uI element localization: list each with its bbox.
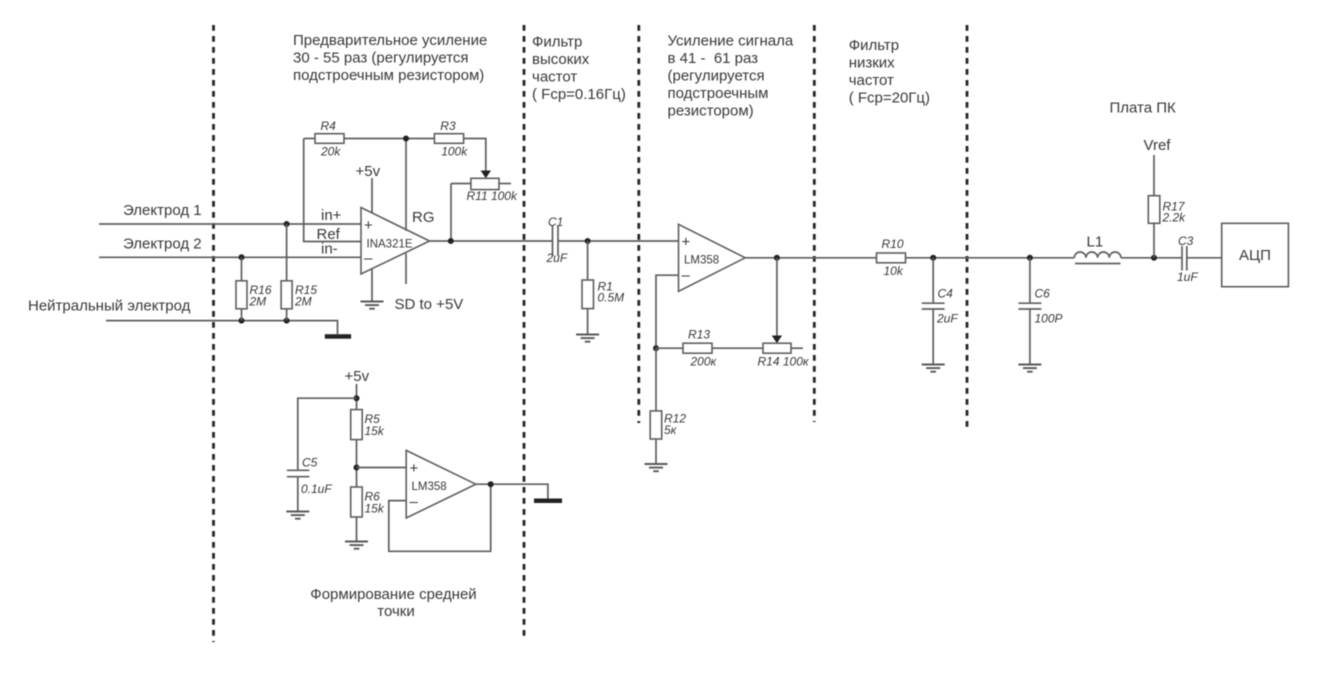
ground R1 [576, 335, 599, 342]
wire +5v pin U1 [371, 178, 373, 213]
svg-text:1uF: 1uF [1177, 270, 1198, 284]
label: preamp section [293, 32, 487, 84]
svg-text:частот: частот [849, 72, 894, 89]
resistor R12 [650, 348, 686, 463]
svg-text:20k: 20k [320, 145, 341, 159]
resistor R6 [351, 487, 385, 541]
wire to C5 [298, 398, 357, 470]
svg-text:+5v: +5v [345, 368, 370, 385]
svg-text:низких: низких [849, 55, 895, 72]
inductor L1 [1074, 234, 1121, 264]
separator dashed line 3 [637, 25, 640, 423]
resistor R17 [1148, 155, 1186, 258]
node RG/feedback [403, 136, 409, 142]
svg-text:0.5M: 0.5M [598, 291, 625, 305]
svg-text:( Fср=0.16Гц): ( Fср=0.16Гц) [532, 86, 626, 103]
capacitor C5 [287, 456, 332, 511]
svg-text:LM358: LM358 [412, 481, 447, 493]
svg-text:30 - 55 раз (регулируется: 30 - 55 раз (регулируется [293, 50, 469, 67]
node neutral/R16 [239, 318, 245, 324]
svg-text:2uF: 2uF [936, 312, 958, 326]
node neutral/R15 [284, 318, 290, 324]
svg-text:in+: in+ [321, 207, 342, 224]
svg-text:Электрод 1: Электрод 1 [123, 202, 202, 219]
op-amp U2 LM358 [679, 224, 746, 291]
label: high pass filter section [532, 34, 626, 104]
node +5v/C5 [354, 395, 360, 401]
ADC box АЦП [1222, 223, 1289, 286]
svg-text:–: – [682, 267, 691, 284]
svg-text:Фильтр: Фильтр [849, 37, 899, 54]
svg-text:RG: RG [412, 209, 435, 226]
node R5/R6 midpoint [354, 465, 360, 471]
svg-text:INA321E: INA321E [367, 239, 413, 251]
svg-text:100k: 100k [441, 145, 468, 159]
svg-text:R3: R3 [440, 119, 456, 133]
svg-text:15k: 15k [365, 502, 385, 516]
wire R4 to R3 [344, 138, 434, 140]
svg-text:5к: 5к [664, 423, 678, 437]
svg-text:C4: C4 [938, 287, 954, 301]
svg-text:–: – [364, 250, 373, 267]
ground C4 [922, 365, 945, 372]
wire L1 to C3 [1121, 257, 1182, 259]
wire U1 output [430, 240, 553, 242]
separator dashed line 2 [523, 25, 526, 641]
svg-text:C5: C5 [302, 456, 318, 470]
node C6 [1027, 255, 1033, 261]
svg-text:Предварительное усиление: Предварительное усиление [293, 32, 487, 49]
ground R12 [645, 464, 668, 471]
svg-text:АЦП: АЦП [1239, 247, 1271, 264]
op-amp U1 INA321E [361, 208, 430, 275]
svg-text:(регулируется: (регулируется [668, 68, 765, 85]
ground neutral (thick bar) [325, 334, 351, 339]
arrow R11 wiper [481, 171, 491, 179]
separator dashed line 1 [212, 25, 215, 642]
wire U3 output [476, 484, 548, 498]
svg-text:15k: 15k [365, 424, 385, 438]
ground U1 [361, 302, 384, 309]
svg-text:подстроечным: подстроечным [668, 85, 769, 102]
op-amp U3 LM358 [406, 450, 476, 518]
svg-text:2uF: 2uF [546, 251, 568, 265]
wire C3 to ADC [1187, 257, 1222, 259]
ground R6 [345, 542, 368, 549]
svg-text:C1: C1 [548, 215, 563, 229]
wire electrode 2 [99, 256, 361, 258]
svg-text:200к: 200к [690, 355, 718, 369]
arrow R14 wiper [772, 336, 782, 344]
node U1 output [448, 238, 454, 244]
wire C1 to U2 [558, 240, 679, 242]
wire Ref feedback [304, 139, 361, 242]
svg-text:Усиление сигнала: Усиление сигнала [668, 33, 794, 50]
svg-text:R14 100к: R14 100к [758, 355, 810, 369]
svg-text:( Fср=20Гц): ( Fср=20Гц) [849, 90, 930, 107]
wire midpoint to U3 [357, 467, 407, 469]
resistor R1 [582, 241, 624, 334]
separator dashed line 4 [813, 25, 816, 422]
svg-text:Электрод 2: Электрод 2 [123, 236, 202, 253]
node R17/C3 [1151, 255, 1157, 261]
resistor R13 [656, 328, 763, 369]
svg-text:R10: R10 [882, 237, 904, 251]
svg-text:2M: 2M [249, 295, 267, 309]
svg-text:точки: точки [377, 603, 414, 620]
svg-text:+5v: +5v [356, 163, 381, 180]
resistor R4 [304, 119, 344, 159]
resistor R3 [434, 119, 468, 159]
svg-text:LM358: LM358 [684, 255, 719, 267]
wire electrode 1 [99, 223, 361, 225]
label: midpoint section [310, 586, 476, 620]
wire +5v to R5 [356, 384, 358, 410]
capacitor C4 [922, 258, 959, 364]
node C1/R1 [585, 238, 591, 244]
wire R10 to L1 [906, 257, 1075, 259]
resistor R10 [877, 237, 906, 278]
svg-text:10k: 10k [884, 264, 904, 278]
label: gain section [668, 33, 794, 120]
wire U2 inverting input [656, 275, 679, 348]
svg-text:подстроечным резистором): подстроечным резистором) [293, 67, 484, 84]
node electrode1/R15 [284, 221, 290, 227]
label: low pass filter section [849, 37, 930, 107]
wire R11 to U1 output [450, 184, 452, 242]
svg-text:Плата ПК: Плата ПК [1110, 100, 1177, 117]
node U2 output [774, 255, 780, 261]
svg-text:+: + [682, 234, 691, 251]
svg-text:in-: in- [321, 241, 338, 258]
node U3 output [488, 481, 494, 487]
resistor R15 [281, 224, 317, 321]
wire U1 ground pin [371, 269, 373, 301]
capacitor C1 [546, 215, 568, 265]
svg-text:R4: R4 [321, 119, 337, 133]
svg-text:–: – [410, 494, 419, 511]
svg-text:R13: R13 [688, 328, 710, 342]
wire U3 feedback loop [389, 484, 491, 551]
svg-text:Vref: Vref [1144, 137, 1172, 154]
svg-text:в 41 - 61 раз: в 41 - 61 раз [668, 50, 759, 67]
svg-text:C6: C6 [1035, 287, 1051, 301]
svg-text:резистором): резистором) [668, 103, 754, 120]
svg-text:Фильтр: Фильтр [532, 34, 582, 51]
capacitor C3 [1177, 234, 1198, 284]
wire RG pin [405, 139, 407, 231]
node C4 [930, 255, 936, 261]
svg-text:2.2k: 2.2k [1162, 211, 1187, 225]
svg-text:SD to +5V: SD to +5V [395, 296, 464, 313]
ground C6 [1018, 365, 1041, 372]
svg-text:частот: частот [532, 69, 577, 86]
separator dashed line 5 [966, 25, 969, 427]
svg-text:+: + [364, 217, 373, 234]
svg-text:100P: 100P [1035, 312, 1063, 326]
wire U2 output to R14 wiper [776, 258, 778, 336]
svg-text:R11 100k: R11 100k [467, 189, 518, 203]
svg-text:2M: 2M [294, 295, 312, 309]
wire R3 to R11 wiper [464, 139, 486, 172]
resistor R5 [351, 410, 385, 487]
ground C5 [286, 512, 309, 519]
potentiometer R14 [758, 343, 810, 368]
capacitor C6 [1018, 258, 1062, 364]
node R13/R12 [653, 345, 659, 351]
svg-text:0.1uF: 0.1uF [301, 482, 332, 496]
resistor R16 [236, 257, 272, 320]
node electrode2/R16 [239, 254, 245, 260]
wire U2 output [745, 257, 876, 259]
potentiometer R11 [451, 178, 518, 203]
svg-text:Формирование средней: Формирование средней [310, 586, 476, 603]
svg-text:C3: C3 [1178, 234, 1194, 248]
svg-text:Нейтральный электрод: Нейтральный электрод [28, 298, 191, 315]
svg-text:высоких: высоких [532, 51, 590, 68]
svg-text:+: + [410, 460, 419, 477]
svg-text:L1: L1 [1087, 234, 1104, 251]
wire SD pin [405, 254, 407, 285]
ground U3 output (thick bar) [534, 499, 562, 504]
wire neutral electrode [106, 321, 338, 334]
